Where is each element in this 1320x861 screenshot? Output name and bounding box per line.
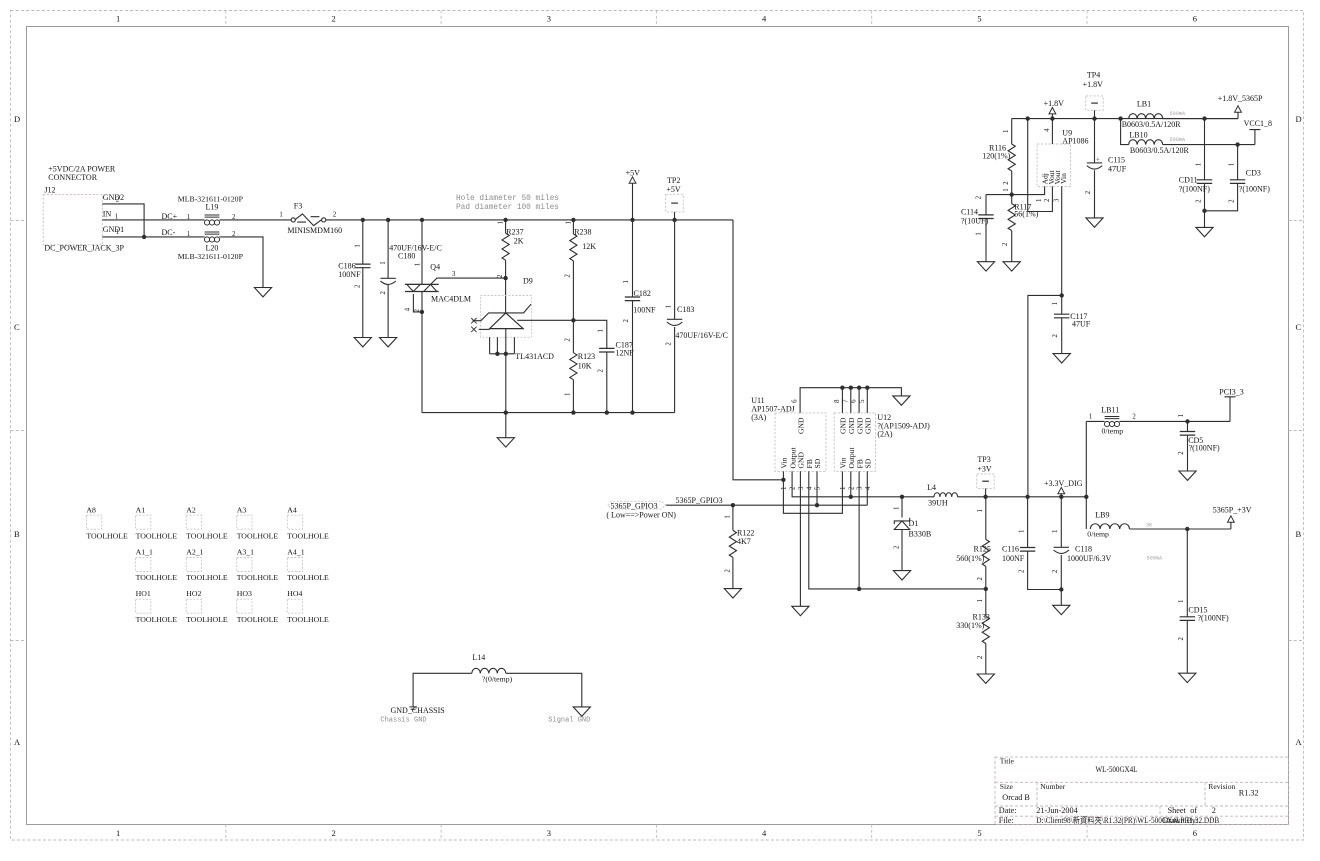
junction C116/C118 ground [1059, 587, 1063, 591]
svg-text:+: + [1096, 156, 1100, 163]
svg-text:0/temp: 0/temp [1087, 530, 1109, 539]
fuse F3 MINISMDM160 [291, 214, 326, 226]
svg-text:500mA: 500mA [1170, 137, 1186, 143]
svg-text:GND: GND [797, 417, 806, 434]
junction GND2/DC- [142, 235, 146, 239]
svg-text:HO4: HO4 [287, 589, 302, 598]
svg-text:D9: D9 [523, 277, 533, 286]
capacitor C114 10UF [961, 195, 994, 262]
svg-text:100NF: 100NF [633, 305, 656, 314]
wire L14 right to signal ground [506, 673, 582, 707]
capacitor C118 1000UF/6.3V [1052, 497, 1111, 606]
wire Vin net U11/U12 [783, 471, 842, 513]
svg-text:1: 1 [565, 221, 572, 224]
svg-text:1: 1 [498, 221, 505, 224]
svg-text:1: 1 [977, 509, 984, 512]
ground C114 [977, 262, 994, 271]
svg-text:TOOLHOLE: TOOLHOLE [186, 615, 228, 624]
svg-text:2: 2 [1052, 569, 1059, 573]
svg-text:A3_1: A3_1 [237, 548, 254, 557]
svg-text:Drawn By:: Drawn By: [1163, 816, 1198, 825]
inductor L4 39UH [927, 483, 958, 508]
wire L4 to +3V rail [958, 496, 1087, 498]
svg-text:Pad diameter 100 miles: Pad diameter 100 miles [456, 204, 559, 212]
junction CD15 [1185, 527, 1189, 531]
power 5365P_+3V arrow [1213, 505, 1252, 529]
inductor LB1 [1122, 100, 1238, 130]
svg-text:Sheet: Sheet [1168, 806, 1187, 815]
svg-text:1: 1 [1052, 302, 1059, 305]
svg-text:R123: R123 [578, 352, 595, 361]
capacitor C116 100NF [1002, 497, 1061, 590]
junction Q4 gate [420, 310, 424, 314]
svg-text:C: C [14, 322, 20, 332]
svg-text:1: 1 [116, 229, 119, 236]
svg-text:8: 8 [834, 399, 841, 403]
svg-text:( Low==>Power ON): ( Low==>Power ON) [606, 511, 676, 520]
ground R122 [724, 589, 741, 598]
svg-text:C: C [1296, 322, 1302, 332]
svg-text:F3: F3 [294, 201, 302, 210]
svg-text:TOOLHOLE: TOOLHOLE [186, 531, 228, 540]
svg-text:2: 2 [1085, 190, 1092, 194]
svg-text:PCI3_3: PCI3_3 [1219, 387, 1243, 396]
svg-text:Title: Title [1000, 757, 1015, 766]
svg-text:TOOLHOLE: TOOLHOLE [237, 531, 279, 540]
toolhole A3 [237, 506, 279, 541]
svg-text:SD: SD [813, 458, 822, 468]
junction U11 Vin [781, 478, 785, 482]
svg-text:1: 1 [116, 14, 120, 24]
wire GND2 to DC- [102, 204, 144, 237]
svg-text:1: 1 [187, 214, 190, 221]
svg-text:(2A): (2A) [877, 430, 892, 439]
ground C180 [380, 338, 397, 347]
svg-text:2: 2 [116, 196, 120, 203]
net flag 5365P_GPIO3 [606, 496, 722, 520]
svg-text:3: 3 [857, 486, 864, 490]
svg-text:D: D [1296, 114, 1302, 124]
svg-text:CONNECTOR: CONNECTOR [48, 173, 97, 182]
svg-text:2: 2 [1002, 242, 1009, 246]
svg-text:4: 4 [865, 486, 872, 490]
svg-text:1: 1 [1003, 188, 1010, 191]
svg-text:L19: L19 [206, 202, 219, 211]
chassis ground GND_CHASSIS [380, 706, 444, 724]
svg-text:2: 2 [1178, 637, 1185, 641]
svg-text:120(1%): 120(1%) [982, 151, 1010, 160]
inductor LB10 [1129, 130, 1255, 155]
svg-text:1: 1 [1178, 600, 1185, 603]
test point TP2 [666, 176, 684, 220]
svg-text:1: 1 [1178, 414, 1185, 417]
ground CD5 [1179, 471, 1196, 480]
svg-text:TOOLHOLE: TOOLHOLE [287, 615, 329, 624]
shunt regulator D9 TL431ACD [471, 277, 554, 413]
svg-text:1: 1 [279, 212, 282, 219]
svg-text:?(100NF): ?(100NF) [1239, 184, 1270, 193]
svg-text:5365P_GPIO3: 5365P_GPIO3 [676, 496, 723, 505]
svg-text:1000UF/6.3V: 1000UF/6.3V [1067, 554, 1111, 563]
junction CD11/CD3 ground [1202, 209, 1206, 213]
svg-text:2: 2 [1003, 181, 1010, 185]
svg-text:1: 1 [781, 487, 788, 490]
test point TP4 [1083, 71, 1104, 119]
svg-text:TP3: TP3 [977, 455, 990, 464]
ground C117 [1053, 354, 1070, 363]
ferrite bead LB11 [1086, 406, 1230, 436]
svg-text:2: 2 [848, 486, 855, 490]
ground DC- [254, 288, 271, 297]
capacitor C115 47UF electrolytic [1085, 119, 1127, 218]
svg-text:TOOLHOLE: TOOLHOLE [136, 615, 178, 624]
svg-text:3K: 3K [1146, 523, 1153, 529]
svg-text:HO2: HO2 [186, 589, 201, 598]
svg-text:3: 3 [547, 14, 551, 24]
svg-text:39UH: 39UH [928, 499, 948, 508]
svg-text:3: 3 [452, 271, 456, 278]
svg-text:Number: Number [1040, 782, 1065, 791]
junction D9 anode pins [495, 352, 499, 356]
svg-text:Size: Size [1000, 782, 1014, 791]
svg-text:3: 3 [1054, 198, 1061, 202]
svg-text:560(1%): 560(1%) [956, 554, 984, 563]
svg-text:SD: SD [864, 458, 873, 468]
svg-text:A4: A4 [287, 506, 297, 515]
svg-text:5: 5 [977, 828, 981, 838]
wire ground bus [422, 412, 675, 414]
resistor R125 560(1%) [956, 497, 991, 589]
power +1.8V arrow [1044, 99, 1065, 119]
ground bus stub [505, 413, 507, 438]
svg-text:3: 3 [798, 486, 805, 490]
svg-text:1: 1 [1229, 163, 1236, 166]
svg-text:?(100NF): ?(100NF) [1189, 444, 1220, 453]
svg-text:2: 2 [332, 828, 336, 838]
wire +1.8V rail [1012, 118, 1238, 120]
svg-text:4: 4 [806, 486, 813, 490]
svg-text:2: 2 [333, 212, 337, 219]
svg-text:2: 2 [893, 545, 900, 549]
svg-text:1: 1 [565, 393, 572, 396]
svg-text:2: 2 [1052, 334, 1059, 338]
svg-text:6: 6 [1193, 828, 1197, 838]
svg-text:5: 5 [859, 399, 866, 403]
ground C115 [1086, 218, 1103, 227]
junction FB/R125/R133 [984, 587, 988, 591]
capacitor C183 electrolytic [666, 220, 729, 413]
svg-text:Chassis GND: Chassis GND [380, 717, 426, 725]
toolhole A2_1 [186, 548, 228, 583]
connector J12 DC_POWER_JACK_3P [43, 165, 124, 253]
svg-text:2: 2 [790, 486, 797, 490]
svg-text:2: 2 [598, 369, 605, 373]
wire FB net [809, 471, 986, 589]
svg-text:C118: C118 [1075, 545, 1092, 554]
svg-text:1: 1 [1003, 130, 1010, 133]
wire +3V riser LB11/LB9 [1085, 421, 1087, 529]
svg-text:C114: C114 [961, 207, 978, 216]
wire L14 left to chassis [413, 673, 472, 707]
svg-text:C180: C180 [398, 251, 415, 260]
svg-text:500mA: 500mA [1147, 556, 1163, 562]
wire IN / DC+ [102, 219, 204, 221]
svg-text:Vin: Vin [1059, 173, 1068, 184]
wire Adj line [986, 186, 1045, 194]
svg-text:1: 1 [977, 599, 984, 602]
svg-text:1: 1 [1018, 530, 1025, 533]
svg-text:2: 2 [1212, 806, 1216, 815]
wire +5V to U11 Vin [733, 220, 783, 480]
svg-text:1: 1 [893, 507, 900, 510]
svg-text:3: 3 [547, 828, 551, 838]
svg-text:100NF: 100NF [338, 270, 361, 279]
capacitor CD3 [1205, 145, 1271, 211]
svg-text:2: 2 [1044, 198, 1051, 202]
svg-text:TOOLHOLE: TOOLHOLE [287, 573, 329, 582]
svg-text:C115: C115 [1108, 156, 1125, 165]
svg-text:B: B [14, 529, 20, 539]
svg-text:0/temp: 0/temp [1102, 427, 1124, 436]
toolhole A3_1 [237, 548, 279, 583]
svg-text:C116: C116 [1002, 545, 1019, 554]
svg-text:TOOLHOLE: TOOLHOLE [136, 573, 178, 582]
svg-text:1: 1 [598, 329, 605, 332]
junction CD3 [1235, 142, 1239, 146]
svg-text:1: 1 [724, 515, 731, 518]
svg-text:+1.8V: +1.8V [1083, 80, 1104, 89]
svg-text:2: 2 [1229, 199, 1236, 203]
ground C186 [354, 338, 371, 347]
toolhole HO2 [186, 589, 228, 624]
toolhole HO1 [136, 589, 178, 624]
svg-text:R125: R125 [974, 545, 991, 554]
svg-text:2: 2 [497, 274, 504, 278]
svg-text:?(0/temp): ?(0/temp) [482, 674, 513, 683]
svg-text:CD11: CD11 [1179, 175, 1198, 184]
capacitor CD11 [1179, 119, 1212, 228]
svg-text:+3.3V_DIG: +3.3V_DIG [1044, 479, 1083, 488]
svg-text:1: 1 [840, 487, 847, 490]
power +1.8V_5365P arrow [1218, 94, 1263, 119]
svg-text:DC-: DC- [162, 228, 176, 237]
svg-text:7: 7 [842, 399, 849, 403]
resistor R117 56(1%) [1002, 195, 1039, 262]
svg-text:VCC1_8: VCC1_8 [1244, 119, 1272, 128]
svg-text:1: 1 [1052, 530, 1059, 533]
svg-text:2: 2 [977, 655, 984, 659]
svg-text:GND: GND [864, 417, 873, 434]
svg-text:AP1086: AP1086 [1062, 137, 1088, 146]
wire D9 reference to R238/R123 [517, 320, 607, 348]
junction R116/R117/Adj [1010, 192, 1014, 196]
svg-text:Q4: Q4 [430, 262, 440, 271]
wire DC- to ground [219, 237, 263, 288]
svg-text:of: of [1190, 806, 1197, 815]
svg-text:21-Jun-2004: 21-Jun-2004 [1036, 806, 1077, 815]
svg-text:2: 2 [724, 569, 731, 573]
wire U11 GND pin3 [799, 471, 801, 606]
diode D1 B330B [893, 497, 931, 571]
ground R117 [1003, 262, 1020, 271]
svg-text:+3V: +3V [977, 465, 992, 474]
svg-text:1: 1 [976, 232, 983, 235]
svg-text:A1: A1 [136, 506, 146, 515]
resistor R237 2K [497, 220, 524, 313]
svg-text:1: 1 [187, 231, 190, 238]
svg-text:2: 2 [1178, 451, 1185, 455]
junction CD5 [1185, 419, 1189, 423]
inductor L14 [472, 653, 513, 683]
svg-text:Revision: Revision [1208, 782, 1235, 791]
svg-text:B: B [1296, 529, 1302, 539]
svg-text:1: 1 [1036, 199, 1043, 202]
toolhole A4 [287, 506, 329, 541]
svg-text:1: 1 [623, 280, 630, 283]
svg-text:330(1%): 330(1%) [956, 621, 984, 630]
svg-text:2: 2 [977, 577, 984, 581]
svg-text:TOOLHOLE: TOOLHOLE [237, 615, 279, 624]
svg-text:2: 2 [1018, 569, 1025, 573]
svg-text:1: 1 [116, 828, 120, 838]
svg-text:TOOLHOLE: TOOLHOLE [237, 573, 279, 582]
svg-text:5365P_GPIO3: 5365P_GPIO3 [611, 501, 658, 510]
toolhole HO4 [287, 589, 329, 624]
svg-text:IN: IN [103, 210, 112, 219]
svg-text:470UF/16V-E/C: 470UF/16V-E/C [675, 331, 728, 340]
svg-text:2: 2 [332, 14, 336, 24]
svg-text:4K7: 4K7 [737, 537, 751, 546]
inductor L20 [204, 232, 219, 242]
svg-text:+1.8V: +1.8V [1044, 99, 1065, 108]
svg-text:5: 5 [815, 486, 822, 490]
inductor L19 [204, 215, 219, 225]
svg-text:2K: 2K [514, 237, 524, 246]
wire SD net / GPIO3 [666, 471, 868, 505]
capacitor C187 12NF [598, 329, 635, 413]
svg-text:C183: C183 [677, 305, 694, 314]
svg-text:?(10UF): ?(10UF) [961, 216, 988, 225]
svg-text:GND1: GND1 [103, 225, 124, 234]
svg-text:1: 1 [415, 263, 422, 266]
toolhole A1_1 [136, 548, 178, 583]
toolhole A8 [86, 506, 128, 541]
regulator U11 AP1507-ADJ [751, 396, 826, 490]
svg-text:2: 2 [1132, 414, 1136, 421]
svg-text:A2: A2 [186, 506, 196, 515]
svg-text:6: 6 [1193, 14, 1197, 24]
svg-text:D1: D1 [909, 519, 919, 528]
svg-text:LB9: LB9 [1095, 511, 1109, 520]
svg-text:1: 1 [1089, 414, 1092, 421]
wire LB10 branch [1121, 119, 1129, 145]
svg-text:1: 1 [1195, 163, 1202, 166]
svg-text:TOOLHOLE: TOOLHOLE [136, 531, 178, 540]
svg-text:4: 4 [404, 307, 411, 311]
svg-text:Date:: Date: [999, 806, 1017, 815]
svg-text:A: A [14, 737, 21, 747]
svg-text:A8: A8 [86, 506, 96, 515]
resistor R133 330(1%) [956, 589, 990, 674]
svg-text:(3A): (3A) [751, 413, 766, 422]
port VCC1_8 [1244, 119, 1272, 145]
svg-text:2: 2 [623, 319, 630, 323]
ground C118 [1053, 605, 1070, 614]
svg-text:LB11: LB11 [1101, 406, 1119, 415]
toolhole A1 [136, 506, 178, 541]
regulator U9 AP1086 [1036, 128, 1088, 202]
svg-text:GND_CHASSIS: GND_CHASSIS [391, 706, 445, 715]
title block [995, 757, 1289, 824]
svg-text:A3: A3 [237, 506, 247, 515]
svg-text:1: 1 [380, 261, 387, 264]
svg-text:+1.8V_5365P: +1.8V_5365P [1218, 94, 1263, 103]
svg-text:R1.32: R1.32 [1239, 789, 1259, 798]
svg-text:GND2: GND2 [103, 193, 124, 202]
svg-text:TOOLHOLE: TOOLHOLE [186, 573, 228, 582]
svg-text:+5V: +5V [626, 169, 641, 178]
toolhole HO3 [237, 589, 279, 624]
svg-text:A1_1: A1_1 [136, 548, 153, 557]
svg-text:A2_1: A2_1 [186, 548, 203, 557]
svg-text:Signal GND: Signal GND [548, 717, 590, 725]
wire Output net [792, 471, 934, 496]
resistor R238 12K [565, 220, 597, 320]
svg-text:B0603/0.5A/120R: B0603/0.5A/120R [1130, 146, 1190, 155]
svg-text:12K: 12K [582, 242, 596, 251]
svg-text:12NF: 12NF [616, 349, 635, 358]
svg-text:6: 6 [851, 399, 858, 403]
svg-text:J12: J12 [44, 186, 55, 195]
svg-text:MINISMDM160: MINISMDM160 [287, 226, 342, 235]
svg-text:DC+: DC+ [162, 212, 178, 221]
svg-text:2: 2 [976, 195, 983, 199]
svg-text:HO1: HO1 [136, 589, 151, 598]
svg-text:A4_1: A4_1 [287, 548, 304, 557]
svg-text:?(100NF): ?(100NF) [1179, 184, 1210, 193]
svg-text:4: 4 [1044, 128, 1051, 132]
svg-text:TL431ACD: TL431ACD [515, 352, 554, 361]
capacitor C186 [338, 220, 370, 338]
wire U9 Vin pin3 to 3.3V [1028, 186, 1062, 496]
test point TP3 [977, 455, 994, 497]
svg-text:TP4: TP4 [1087, 71, 1100, 80]
resistor R122 4K7 [724, 505, 754, 588]
svg-text:A: A [1296, 737, 1303, 747]
capacitor CD5 [1178, 414, 1220, 471]
ground CD11 [1196, 227, 1213, 236]
toolhole A2 [186, 506, 228, 541]
wire U9 Vout pin4 [1051, 119, 1053, 144]
svg-text:47UF: 47UF [1108, 165, 1127, 174]
svg-text:?(100NF): ?(100NF) [1198, 614, 1229, 623]
svg-text:2: 2 [565, 274, 572, 278]
regulator U12 AP1509-ADJ [834, 413, 930, 490]
ground U11 [792, 606, 809, 615]
svg-text:LB1: LB1 [1137, 100, 1151, 109]
svg-text:L4: L4 [927, 483, 936, 492]
ground CD15 [1179, 673, 1196, 682]
svg-text:1: 1 [355, 244, 362, 247]
ground signal [573, 707, 590, 716]
capacitor C182 100NF [623, 220, 656, 413]
junction ref/R238 [571, 318, 575, 322]
svg-text:10K: 10K [578, 361, 592, 370]
svg-text:100NF: 100NF [1002, 554, 1025, 563]
svg-text:1: 1 [666, 305, 673, 308]
svg-text:D: D [14, 114, 20, 124]
svg-text:Vin: Vin [780, 457, 789, 468]
